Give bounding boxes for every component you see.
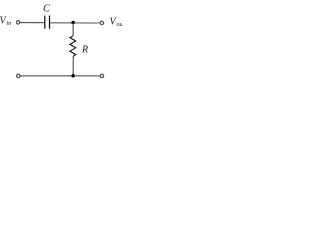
svg-text:C: C xyxy=(43,4,50,15)
svg-text:R: R xyxy=(81,45,88,56)
resistor R xyxy=(70,36,76,57)
wire top-right xyxy=(50,22,99,24)
junction dot bottom xyxy=(71,74,75,78)
junction dot top xyxy=(71,21,75,25)
bottom-left terminal xyxy=(17,74,20,77)
node Vin terminal xyxy=(17,21,20,24)
svg-text:in: in xyxy=(6,20,11,27)
bottom-right terminal xyxy=(100,74,103,77)
wire top-left xyxy=(20,22,44,24)
wire bottom rail xyxy=(21,75,100,77)
wire resistor top lead xyxy=(72,23,74,36)
svg-text:out: out xyxy=(116,21,122,28)
capacitor C left plate xyxy=(44,16,46,29)
capacitor C right plate xyxy=(49,16,51,29)
wire resistor bottom lead xyxy=(72,56,74,75)
node Vout terminal xyxy=(100,21,103,24)
